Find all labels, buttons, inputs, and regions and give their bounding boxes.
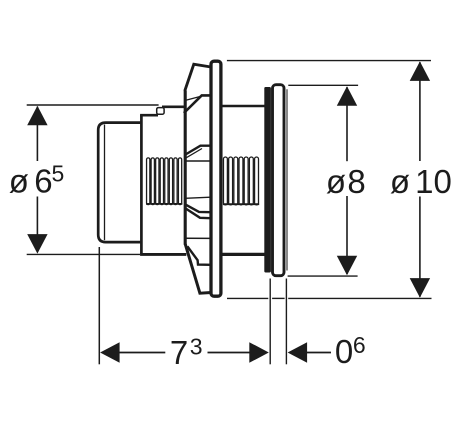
dim ø6.5 top extension line	[27, 104, 159, 106]
dim 7.3 line right segment	[208, 352, 250, 354]
sleeve right edge / flange tooth base	[184, 91, 187, 245]
dim ø8 line upper segment	[346, 87, 348, 161]
dim 0.6 line	[307, 352, 331, 354]
flange tooth ledge B	[185, 160, 210, 162]
flange tooth step lower outer	[184, 204, 210, 212]
svg-text:10: 10	[415, 163, 452, 200]
dim 0.6 left extension line	[269, 279, 271, 365]
dim 7.3 line left segment	[119, 352, 165, 354]
dim ø6.5 bottom extension line	[27, 253, 141, 255]
sleeve bottom edge	[140, 253, 186, 256]
dim 7.3 arrow left	[100, 342, 120, 363]
dim ø8 top extension line	[288, 84, 358, 86]
threaded tube left section	[147, 158, 182, 205]
dim ø6.5 text	[9, 161, 64, 200]
flange tooth step lower inner	[185, 208, 211, 218]
svg-text:3: 3	[190, 334, 203, 360]
dim ø8 line lower segment	[346, 196, 348, 274]
svg-text:ø: ø	[326, 163, 346, 200]
svg-text:7: 7	[170, 334, 188, 371]
dim ø10 text	[390, 163, 452, 200]
threaded tube right section	[223, 157, 258, 205]
svg-text:8: 8	[347, 163, 365, 200]
thread bottom rail right	[223, 203, 259, 205]
dim ø8 arrow up	[337, 86, 357, 106]
flange bottom spike outer edge	[185, 244, 211, 293]
flange tooth step upper	[184, 95, 212, 113]
dim ø10 bottom extension line segment a	[227, 297, 268, 299]
button cap	[98, 123, 141, 243]
back nut washer	[264, 87, 271, 273]
dim 7.3 left extension line	[98, 247, 100, 364]
dim ø6.5 line upper segment	[36, 107, 38, 161]
dim 0.6 arrow left	[288, 342, 308, 363]
thread bottom rail left	[146, 203, 182, 205]
spacer cylinder top line	[222, 105, 267, 108]
button cap inner face line	[104, 125, 106, 241]
svg-text:5: 5	[52, 161, 65, 187]
dim ø10 arrow down	[410, 278, 430, 298]
flange tooth ledge A thin	[185, 149, 202, 159]
cover disc	[273, 85, 285, 276]
dim ø10 line lower segment	[419, 197, 421, 297]
spacer cylinder bottom line	[222, 253, 267, 256]
flange top spike outer edge	[185, 64, 211, 91]
dim ø6.5 arrow down	[27, 234, 47, 254]
svg-text:ø: ø	[9, 163, 29, 200]
dim ø8 arrow down	[337, 256, 357, 276]
sleeve left edge	[140, 115, 143, 255]
sleeve clip notch	[157, 108, 164, 115]
dim ø6.5 line lower segment	[36, 197, 38, 253]
dim ø8 text	[326, 163, 366, 200]
svg-text:ø: ø	[390, 163, 410, 200]
svg-text:0: 0	[335, 333, 353, 370]
gasket line	[286, 89, 288, 270]
dim 0.6 text	[335, 332, 366, 370]
flange bottom spike inner edge	[187, 246, 210, 264]
flange top spike underside thin line	[184, 96, 201, 100]
dim ø10 bottom extension line segment b	[272, 297, 285, 299]
dim ø10 top extension line	[227, 60, 431, 62]
dim ø10 arrow up	[410, 61, 430, 81]
flange tooth ledge A thick	[185, 146, 210, 155]
svg-text:6: 6	[353, 332, 366, 358]
dim ø8 bottom extension line	[288, 275, 358, 277]
flange tooth ledge C	[185, 197, 210, 198]
dim ø6.5 arrow up	[27, 106, 47, 126]
flange back plate	[211, 61, 221, 296]
dim 0.6 right extension line	[285, 279, 287, 365]
dim ø10 line upper segment	[419, 62, 421, 161]
dim 7.3 text	[170, 334, 203, 372]
dim ø10 bottom extension line segment c	[288, 297, 431, 299]
sleeve top edge (left part)	[140, 114, 158, 117]
dim 7.3 arrow right	[249, 342, 268, 363]
flange tooth ledge E	[185, 237, 211, 239]
sleeve raised top edge	[162, 106, 186, 109]
svg-text:6: 6	[34, 163, 52, 200]
